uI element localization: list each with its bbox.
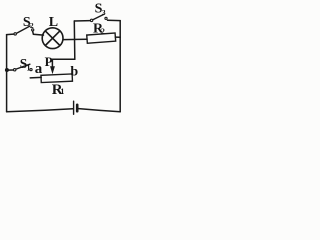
wire battery to bottom right xyxy=(79,109,121,112)
wire S1 stub xyxy=(8,69,13,71)
svg-text:P: P xyxy=(45,54,53,69)
switch S1 pivot xyxy=(14,69,16,71)
wire lamp to R2 xyxy=(63,38,87,40)
switch S1 contact xyxy=(30,69,32,71)
wire a to R1 xyxy=(30,76,41,79)
svg-text:a: a xyxy=(35,61,43,77)
svg-text:b: b xyxy=(70,64,78,79)
wire S2 stub xyxy=(7,33,14,36)
battery long plate xyxy=(73,101,75,114)
switch S2 pivot xyxy=(14,33,16,35)
wire wiper stem xyxy=(51,59,53,67)
wire right rail xyxy=(119,21,121,112)
wire wiper horizontal xyxy=(52,58,74,60)
wire left rail xyxy=(6,35,8,112)
wire top right to S3 contact xyxy=(108,19,121,21)
wire vertical branch node xyxy=(73,21,76,59)
switch S2 lever xyxy=(17,26,30,33)
node junction dot xyxy=(5,68,9,72)
wire S3 pivot to corner xyxy=(74,20,90,22)
rheostat wiper arrow P xyxy=(50,66,55,74)
svg-text:3: 3 xyxy=(102,8,106,17)
resistor R1 box xyxy=(41,74,72,83)
wire S2 contact to lamp xyxy=(33,31,44,35)
resistor R2 box xyxy=(87,33,116,43)
svg-text:1: 1 xyxy=(60,87,64,96)
switch S3 pivot xyxy=(90,19,92,21)
switch S2 contact xyxy=(32,29,34,31)
switch S3 lever xyxy=(93,14,104,19)
battery short plate xyxy=(76,105,79,111)
svg-text:1: 1 xyxy=(27,64,31,73)
svg-text:L: L xyxy=(49,15,58,30)
wire bottom left to battery xyxy=(7,109,73,112)
svg-text:2: 2 xyxy=(101,27,105,36)
svg-text:2: 2 xyxy=(30,21,34,30)
wire R2 to right rail xyxy=(115,36,120,38)
lamp L xyxy=(42,28,63,49)
switch S3 contact xyxy=(105,17,107,19)
switch S1 lever xyxy=(16,64,30,69)
